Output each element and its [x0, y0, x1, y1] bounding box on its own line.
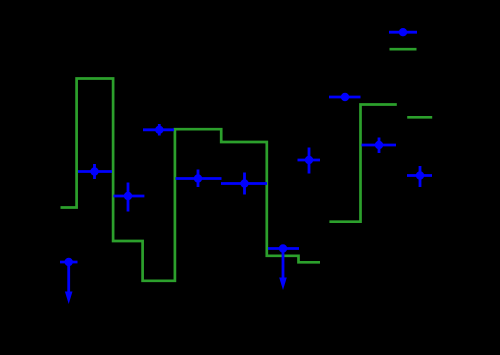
data point P1: [78, 164, 112, 179]
data point P7: [298, 148, 321, 174]
data point P8: [329, 93, 361, 101]
green model step line A: [61, 79, 321, 281]
data point P3: [114, 183, 145, 212]
upper limit point P11 with down arrow: [60, 258, 78, 304]
legend entry: data (blue errorbar): [389, 28, 417, 36]
green model step line C: [407, 116, 432, 119]
data point P2: [143, 124, 174, 136]
data point P9: [362, 138, 397, 154]
legend entry: model (green line): [390, 48, 417, 51]
data point P4: [176, 170, 222, 188]
green model step line B: [329, 105, 396, 222]
data point P10: [407, 166, 432, 187]
data point P5: [221, 173, 267, 195]
upper limit point P6 with down arrow: [268, 244, 299, 290]
